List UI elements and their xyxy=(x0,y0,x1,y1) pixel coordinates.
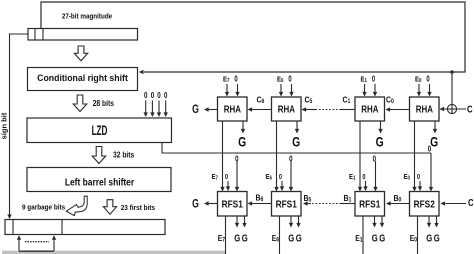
svg-text:E7: E7 xyxy=(212,173,219,181)
svg-text:E6: E6 xyxy=(266,173,273,181)
svg-text:0: 0 xyxy=(234,76,237,84)
svg-text:G: G xyxy=(372,232,378,243)
wire G output a below RFS box 4 xyxy=(427,216,431,228)
full-subtractor RFS1 box 3 xyxy=(355,192,385,217)
label G output of RHA3 xyxy=(376,134,384,150)
svg-text:Left barrel shifter: Left barrel shifter xyxy=(65,177,135,188)
svg-text:RFS1: RFS1 xyxy=(359,198,380,210)
wire from junction down to XOR xyxy=(451,72,453,105)
wire C1 out of RHA3 xyxy=(341,109,355,111)
wire G output b below RFS box 1 xyxy=(242,216,246,228)
svg-text:E0: E0 xyxy=(404,173,411,181)
label 0 first input of RFS box 4 xyxy=(417,173,420,181)
block LZD xyxy=(27,118,172,143)
svg-text:G: G xyxy=(192,103,199,117)
label E0 input of RHA4 xyxy=(415,76,422,84)
svg-text:0: 0 xyxy=(157,90,160,100)
label LZD xyxy=(92,124,108,139)
label 0 first input of RFS box 3 xyxy=(362,173,365,181)
label E7 input of RHA1 xyxy=(223,76,230,84)
label 0 input of RHA4 xyxy=(426,76,429,84)
label 0 first input of RFS box 1 xyxy=(225,173,228,181)
svg-text:0: 0 xyxy=(428,143,431,153)
svg-text:E1: E1 xyxy=(349,173,356,181)
wire E1 input to RHA3 xyxy=(362,84,366,97)
svg-text:E0: E0 xyxy=(415,76,422,84)
label 0 input of RHA1 xyxy=(234,76,237,84)
wire C5 into RHA2 xyxy=(302,107,317,111)
label C1 xyxy=(343,95,351,105)
wire E1 output below RFS box 3 xyxy=(362,216,364,254)
wire G output b below RFS box 2 xyxy=(296,216,300,228)
svg-text:E7: E7 xyxy=(223,76,230,84)
block conditional right shift xyxy=(28,68,138,91)
label E7 below RFS box 1 xyxy=(218,233,225,243)
label E0 input of RFS box 4 xyxy=(404,173,411,181)
svg-text:32 bits: 32 bits xyxy=(113,150,134,160)
svg-text:RHA: RHA xyxy=(416,104,434,115)
label G G below RFS box 3 xyxy=(372,232,385,243)
wire zero drop to RFS2 xyxy=(429,153,433,192)
wire G output a below RFS box 3 xyxy=(372,216,376,228)
wire zero drop to RFS1 a xyxy=(235,153,239,192)
half-adder RHA1 box xyxy=(218,97,248,121)
wire G output down of RHA3 xyxy=(378,121,382,134)
grey bar bottom edge xyxy=(2,251,225,254)
label sign bit xyxy=(0,112,9,139)
svg-text:0: 0 xyxy=(426,76,429,84)
wire E6 from RHA2 to RFS2 xyxy=(274,121,278,192)
svg-text:G: G xyxy=(430,134,438,150)
wire C6 RHA2 to RHA1 xyxy=(248,107,272,111)
wire 0 input to RHA4 xyxy=(427,84,431,97)
wire E7 output below RFS box 1 xyxy=(225,216,227,254)
wire E6 output below RFS box 2 xyxy=(279,216,281,254)
label C input RFS row xyxy=(468,197,474,208)
wire feedback loop from magnitude register to conditional right shift xyxy=(41,2,465,74)
svg-text:G: G xyxy=(234,232,240,243)
svg-text:G: G xyxy=(434,232,440,243)
label G output left of RFS row xyxy=(192,197,199,211)
label 9 garbage bits xyxy=(22,204,65,212)
label G output of RHA2 xyxy=(292,134,300,150)
wire G output a below RFS box 2 xyxy=(289,216,293,228)
label G output left of RHA row xyxy=(192,103,199,117)
label 0 first input of RFS box 2 xyxy=(279,173,282,181)
svg-text:RFS1: RFS1 xyxy=(276,198,297,210)
label 23 first bits xyxy=(121,205,156,213)
label C6 xyxy=(257,95,265,105)
label E1 input of RHA3 xyxy=(361,76,368,84)
wire C0 RHA4 to RHA3 xyxy=(386,107,410,111)
svg-text:RHA: RHA xyxy=(224,104,242,115)
arrow LZD to left barrel shifter 32 bits xyxy=(92,147,106,164)
wire 0 first input arrow RFS box 3 xyxy=(363,181,367,191)
label 28 bits xyxy=(93,98,114,108)
wire dotted between feedback arrows xyxy=(25,241,49,243)
label 0 second input of RFS box 1 xyxy=(234,153,240,163)
wire 0 input to RHA3 xyxy=(373,84,377,97)
register 27-bit magnitude xyxy=(28,29,138,41)
svg-text:0: 0 xyxy=(288,76,291,84)
svg-text:0: 0 xyxy=(362,173,365,181)
wire sign bit from register to output register xyxy=(7,34,28,219)
wire zero drop to RFS1 c xyxy=(373,153,377,192)
wire E7 input to RHA1 xyxy=(225,84,229,97)
label conditional right shift xyxy=(37,73,128,83)
svg-text:RFS2: RFS2 xyxy=(414,198,435,210)
label 0 input of RHA2 xyxy=(288,76,291,84)
svg-text:E1: E1 xyxy=(361,76,368,84)
xor gate on C input xyxy=(447,104,456,113)
label C input RHA row xyxy=(467,104,473,115)
svg-text:LZD: LZD xyxy=(92,124,108,139)
label G output of RHA4 xyxy=(430,134,438,150)
label C5 xyxy=(305,95,313,105)
svg-text:0: 0 xyxy=(372,76,375,84)
wire dotted carry chain RFS row xyxy=(311,203,341,205)
svg-text:G: G xyxy=(238,134,246,150)
wire zero drop to RFS1 b xyxy=(289,153,293,192)
full-subtractor RFS2 box 4 xyxy=(410,192,440,217)
wire rounding feedback bottom xyxy=(19,250,54,252)
arrow 9 garbage bits curved xyxy=(66,196,87,215)
wire G output down of RHA4 xyxy=(433,121,437,134)
wire dotted carry chain RHA row xyxy=(317,109,342,111)
label G G below RFS box 1 xyxy=(234,232,247,243)
svg-text:0: 0 xyxy=(289,153,292,163)
svg-text:0: 0 xyxy=(279,173,282,181)
svg-text:G: G xyxy=(376,134,384,150)
wire 0 first input arrow RFS box 1 xyxy=(226,181,230,191)
label G output of RHA1 xyxy=(238,134,246,150)
label 27-bit magnitude xyxy=(62,13,112,21)
half-adder RHA4 box xyxy=(410,97,440,121)
wire 0 first input arrow RFS box 4 xyxy=(418,181,422,191)
label G G below RFS box 2 xyxy=(288,232,301,243)
label E1 input of RFS box 3 xyxy=(349,173,356,181)
wire E0 output below RFS box 4 xyxy=(417,216,419,254)
wire 0 input to RHA1 xyxy=(235,84,239,97)
wire C input to RFS2 xyxy=(441,201,467,205)
svg-text:0: 0 xyxy=(225,173,228,181)
wire LZD output to RFS zero inputs xyxy=(162,143,431,154)
svg-text:23 first bits: 23 first bits xyxy=(121,205,156,213)
wire 0 first input arrow RFS box 2 xyxy=(280,181,284,191)
svg-text:0: 0 xyxy=(373,153,376,163)
label left barrel shifter xyxy=(65,177,135,188)
wire G output left of RFS1 xyxy=(204,201,218,205)
wire C input through XOR to RHA4 xyxy=(440,107,467,111)
svg-text:RHA: RHA xyxy=(361,104,379,115)
svg-text:C: C xyxy=(468,197,474,208)
wire G output down of RHA1 xyxy=(241,121,245,134)
wire B0 RFS2 to RFS box3 xyxy=(386,201,410,205)
label 0 0 0 0 LZD zero inputs xyxy=(144,90,167,100)
wire B5 into RFS box2 xyxy=(303,201,311,205)
svg-text:G: G xyxy=(192,197,199,211)
label 32 bits xyxy=(113,150,134,160)
label E0 below RFS box 4 xyxy=(410,233,417,243)
arrow 23 first bits xyxy=(103,200,116,215)
svg-text:RHA: RHA xyxy=(278,104,296,115)
svg-text:9 garbage bits: 9 garbage bits xyxy=(22,204,65,212)
wire B6 RFS2 to RFS1 xyxy=(248,201,272,205)
svg-text:E6: E6 xyxy=(277,76,284,84)
svg-text:G: G xyxy=(379,232,385,243)
wire G output down of RHA2 xyxy=(295,121,299,134)
label 0 second input of RFS box 2 xyxy=(288,153,294,163)
svg-text:G: G xyxy=(242,232,248,243)
wire E0 from RHA4 to RFS4 xyxy=(412,121,416,192)
label E7 input of RFS box 1 xyxy=(212,173,219,181)
label G G below RFS box 4 xyxy=(426,232,439,243)
wire G output a below RFS box 1 xyxy=(235,216,239,228)
svg-text:28 bits: 28 bits xyxy=(93,98,114,108)
wires zero inputs into LZD xyxy=(144,101,168,118)
wire E6 input to RHA2 xyxy=(279,84,283,97)
svg-text:G: G xyxy=(288,232,294,243)
svg-text:RFS1: RFS1 xyxy=(222,198,243,210)
svg-text:27-bit magnitude: 27-bit magnitude xyxy=(62,13,112,21)
wire 0 input to RHA2 xyxy=(289,84,293,97)
wire rounding feedback right xyxy=(52,235,56,251)
svg-text:sign bit: sign bit xyxy=(0,112,9,139)
label E6 below RFS box 2 xyxy=(272,233,279,243)
svg-text:0: 0 xyxy=(164,90,167,100)
svg-text:0: 0 xyxy=(235,153,238,163)
svg-text:C: C xyxy=(467,104,473,115)
label B0 xyxy=(394,193,402,203)
label C0 xyxy=(386,95,394,105)
wire E7 from RHA1 to RFS1 xyxy=(220,121,224,192)
half-adder RHA3 box xyxy=(355,97,385,121)
svg-text:0: 0 xyxy=(417,173,420,181)
label E1 below RFS box 3 xyxy=(355,233,362,243)
wire G output b below RFS box 4 xyxy=(434,216,438,228)
arrow magnitude register to conditional right shift xyxy=(74,46,87,61)
label 0 second input of RFS box 4 xyxy=(428,143,431,153)
svg-text:0: 0 xyxy=(151,90,154,100)
svg-text:G: G xyxy=(292,134,300,150)
full-subtractor RFS1 box 2 xyxy=(272,192,302,217)
arrow conditional right shift to LZD 28 bits xyxy=(73,95,87,112)
label B6 xyxy=(256,193,264,203)
svg-text:G: G xyxy=(426,232,432,243)
svg-text:0: 0 xyxy=(144,90,147,100)
wire G output b below RFS box 3 xyxy=(380,216,384,228)
label 0 input of RHA3 xyxy=(372,76,375,84)
node junction dot on feedback wire xyxy=(450,70,454,74)
register output mantissa xyxy=(5,220,165,235)
block left barrel shifter xyxy=(27,168,171,192)
label E6 input of RFS box 2 xyxy=(266,173,273,181)
label 0 second input of RFS box 3 xyxy=(372,153,378,163)
wire rounding feedback left xyxy=(17,235,21,251)
svg-text:Conditional right shift: Conditional right shift xyxy=(37,73,128,83)
wire G output left of RHA1 xyxy=(204,107,218,111)
svg-text:G: G xyxy=(296,232,302,243)
wire B1 out of RFS box3 xyxy=(341,203,355,205)
wire E1 from RHA3 to RFS3 xyxy=(358,121,362,192)
label E6 input of RHA2 xyxy=(277,76,284,84)
half-adder RHA2 box xyxy=(272,97,302,121)
label B1 xyxy=(344,193,352,203)
wire E0 input to RHA4 xyxy=(417,84,421,97)
label B5 xyxy=(304,193,312,203)
full-subtractor RFS1 box 1 xyxy=(218,192,248,217)
